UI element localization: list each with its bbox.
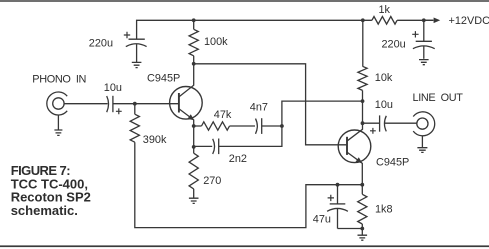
svg-text:10u: 10u bbox=[375, 99, 393, 111]
svg-text:LINE OUT: LINE OUT bbox=[413, 92, 464, 104]
svg-text:PHONO IN: PHONO IN bbox=[32, 74, 86, 86]
svg-text:10u: 10u bbox=[104, 82, 122, 94]
svg-text:390k: 390k bbox=[143, 134, 167, 146]
svg-text:+12VDC: +12VDC bbox=[449, 15, 489, 27]
svg-text:100k: 100k bbox=[204, 36, 228, 48]
svg-text:220u: 220u bbox=[89, 38, 113, 50]
svg-text:220u: 220u bbox=[382, 39, 406, 51]
svg-text:schematic.: schematic. bbox=[11, 203, 78, 218]
svg-text:47u: 47u bbox=[313, 214, 331, 226]
svg-text:4n7: 4n7 bbox=[250, 102, 268, 114]
svg-text:10k: 10k bbox=[375, 72, 393, 84]
svg-text:270: 270 bbox=[203, 175, 221, 187]
svg-text:2n2: 2n2 bbox=[229, 153, 247, 165]
svg-text:C945P: C945P bbox=[147, 72, 180, 84]
svg-text:C945P: C945P bbox=[376, 157, 409, 169]
svg-text:1k8: 1k8 bbox=[375, 204, 393, 216]
svg-text:1k: 1k bbox=[379, 4, 391, 16]
svg-text:47k: 47k bbox=[214, 109, 232, 121]
